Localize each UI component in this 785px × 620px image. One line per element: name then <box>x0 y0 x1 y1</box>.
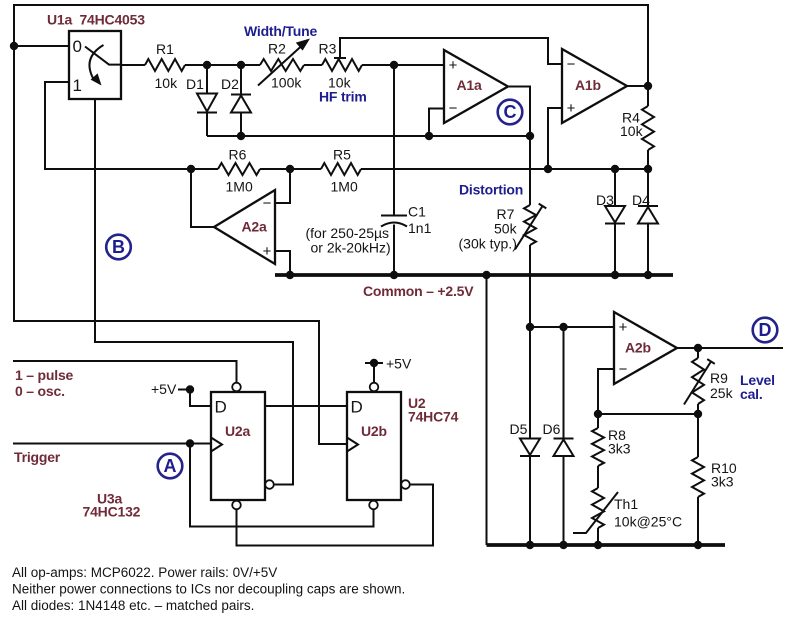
U2b notQ pin circle <box>401 480 410 489</box>
diode D5 <box>529 327 531 439</box>
svg-text:1: 1 <box>73 76 82 95</box>
svg-text:D1: D1 <box>186 76 204 92</box>
wire: pulse/osc select to U2a set pin <box>13 361 237 383</box>
svg-text:−: − <box>619 361 628 378</box>
wire: R9 bottom to R8/R10 node <box>598 413 698 415</box>
junction D1 top <box>203 61 211 69</box>
wire: R3 to A1a non-inverting input <box>362 64 444 66</box>
U2a clock wedge <box>211 438 222 452</box>
op-amp A1b <box>562 49 627 123</box>
junction R10 bottom <box>694 541 702 549</box>
svg-text:(30k typ.): (30k typ.) <box>459 236 517 252</box>
wire: D1/D2 cathode bus to A1a output node <box>207 135 530 137</box>
svg-text:−: − <box>449 100 458 117</box>
diode D1 <box>206 65 208 94</box>
wire: A2a output feedback <box>191 169 214 227</box>
svg-text:A: A <box>164 456 177 476</box>
wire: R2 to R3 <box>304 64 322 66</box>
junction A2a output feedback <box>187 165 195 173</box>
U2a clear pin circle <box>232 501 241 510</box>
junction D2 top <box>237 61 245 69</box>
junction A2b output / R9 top <box>694 344 702 352</box>
potentiometer R2 Width/Tune <box>260 59 304 71</box>
svg-text:0: 0 <box>73 37 82 56</box>
svg-text:U2b: U2b <box>361 423 387 439</box>
svg-text:D: D <box>351 398 363 417</box>
svg-text:+: + <box>263 243 272 260</box>
svg-text:+: + <box>449 57 458 74</box>
svg-text:Common – +2.5V: Common – +2.5V <box>363 283 474 299</box>
junction D4 bottom on rail <box>644 271 652 279</box>
svg-text:−: − <box>567 56 576 73</box>
svg-text:R2: R2 <box>268 41 286 57</box>
bottom rail 0V <box>487 543 726 547</box>
wire: R6 to R5 <box>260 168 321 170</box>
junction A1a inverting feedback <box>425 132 433 140</box>
svg-text:All op-amps: MCP6022. Power ra: All op-amps: MCP6022. Power rails: 0V/+5… <box>12 565 277 580</box>
svg-text:or 2k-20kHz): or 2k-20kHz) <box>311 240 391 256</box>
wire: U2a Q to U2b D <box>265 405 347 407</box>
svg-text:D4: D4 <box>632 192 650 208</box>
svg-text:A1b: A1b <box>575 77 601 93</box>
wire: A1a output down to diode bus and R7 <box>508 87 530 206</box>
node B <box>106 235 131 260</box>
junction A1a output at bus <box>526 132 534 140</box>
node C <box>498 100 523 125</box>
junction lower-section feed on rail <box>482 271 490 279</box>
wire: R3 wiper to A1b inverting input <box>340 38 562 64</box>
resistor R1 <box>145 59 185 71</box>
capacitor C1 <box>393 65 395 216</box>
svg-text:C1: C1 <box>408 204 426 220</box>
diode D4 <box>647 169 649 206</box>
svg-text:10k: 10k <box>155 75 179 91</box>
svg-text:100k: 100k <box>271 75 302 91</box>
junction A1b + riser <box>544 165 552 173</box>
wire: rail down to bottom rail (left side of output section) <box>486 275 488 545</box>
wire: A2b inverting input riser <box>598 369 614 414</box>
wire: A2a non-inverting stub to common <box>275 251 290 275</box>
resistor R5 <box>321 163 361 175</box>
U2b clock wedge <box>347 438 358 452</box>
svg-text:3k3: 3k3 <box>608 441 631 457</box>
svg-text:Th1: Th1 <box>614 496 638 512</box>
svg-text:A2a: A2a <box>242 219 267 235</box>
wire: A1b output <box>627 85 648 87</box>
wire: A2b output to node D <box>677 347 783 349</box>
svg-text:All diodes: 1N4148 etc. – matc: All diodes: 1N4148 etc. – matched pairs. <box>12 598 254 613</box>
svg-text:50k: 50k <box>494 221 518 237</box>
svg-text:U2a: U2a <box>225 423 250 439</box>
svg-text:Distortion: Distortion <box>459 182 523 198</box>
svg-text:D3: D3 <box>596 192 614 208</box>
svg-text:A2b: A2b <box>625 340 651 356</box>
junction R4 bottom D4 top <box>644 165 652 173</box>
svg-text:−: − <box>263 195 272 212</box>
wire: A1b output down to R4 <box>647 86 649 106</box>
junction R9 bottom R10 top <box>694 410 702 418</box>
svg-text:R5: R5 <box>333 147 351 163</box>
svg-text:1M0: 1M0 <box>331 179 358 195</box>
wire: R5 to R4 bottom node <box>361 168 648 170</box>
resistor R4 <box>642 106 654 150</box>
svg-text:D6: D6 <box>543 421 561 437</box>
svg-text:B: B <box>112 237 125 257</box>
wire: U1a control pin down to U2a Q riser <box>95 99 293 485</box>
wire: trigger branch to U2b clear pin <box>190 444 374 527</box>
resistor R10 <box>697 414 699 457</box>
svg-text:10k: 10k <box>620 123 644 139</box>
analog switch U1a box <box>69 31 121 99</box>
svg-text:+5V: +5V <box>151 381 177 397</box>
junction D3 top <box>611 165 619 173</box>
junction R8 top <box>594 410 602 418</box>
U2b set pin circle <box>370 383 379 392</box>
svg-text:D2: D2 <box>221 76 239 92</box>
U2a set pin circle <box>232 383 241 392</box>
svg-text:74HC132: 74HC132 <box>83 504 141 520</box>
svg-text:R1: R1 <box>156 41 174 57</box>
svg-text:R3: R3 <box>319 41 337 57</box>
svg-text:A1a: A1a <box>457 77 482 93</box>
junction D3 bottom on rail <box>611 271 619 279</box>
svg-text:+5V: +5V <box>386 356 412 372</box>
svg-text:1M0: 1M0 <box>226 179 253 195</box>
wire: A1b non-inverting input riser <box>548 108 562 169</box>
op-amp A2a (points left) <box>214 190 275 264</box>
svg-text:R9: R9 <box>710 370 728 386</box>
wire: U1a pin 1 to R6 input line <box>45 82 218 169</box>
junction D5 bottom <box>526 541 534 549</box>
node A <box>158 454 183 479</box>
junction C1 bottom on rail <box>390 271 398 279</box>
svg-text:0 – osc.: 0 – osc. <box>15 383 65 399</box>
wire: Trigger to U2a clock <box>13 443 211 445</box>
svg-text:HF trim: HF trim <box>319 89 367 105</box>
wire: U2a clear to U2b notQ loop <box>237 485 434 546</box>
junction A1b output <box>644 82 652 90</box>
flip-flop U2b <box>347 392 401 500</box>
wire: U1a output to R1 <box>121 64 145 66</box>
junction at U1a pin 0 branch <box>10 42 18 50</box>
svg-text:Trigger: Trigger <box>14 449 61 465</box>
svg-text:+: + <box>567 100 576 117</box>
wire: R7/D5 node to A2b non-inverting input <box>530 326 614 328</box>
junction A2a inverting input <box>286 165 294 173</box>
junction D6 top <box>559 323 567 331</box>
svg-text:10k@25°C: 10k@25°C <box>614 514 682 530</box>
U1a switch arm <box>85 47 121 65</box>
node D <box>753 318 778 343</box>
op-amp A2b <box>614 312 677 384</box>
svg-text:D: D <box>759 320 772 340</box>
junction trigger branch <box>186 439 194 447</box>
svg-text:C: C <box>504 102 517 122</box>
diode D3 <box>614 169 616 206</box>
svg-text:Width/Tune: Width/Tune <box>244 23 317 39</box>
svg-text:Neither power connections to I: Neither power connections to ICs nor dec… <box>12 582 405 597</box>
resistor R8 <box>597 414 599 428</box>
svg-text:D5: D5 <box>510 421 528 437</box>
wire: integrator line R6 R5 <box>218 163 260 175</box>
svg-text:1 – pulse: 1 – pulse <box>15 367 74 383</box>
junction D6 bottom <box>559 541 567 549</box>
svg-text:U1a 74HC4053: U1a 74HC4053 <box>47 12 145 28</box>
svg-text:+: + <box>619 319 628 336</box>
wire: A1a inverting input riser <box>429 109 444 137</box>
svg-text:25k: 25k <box>710 385 734 401</box>
junction Th1 bottom <box>594 541 602 549</box>
U2b clear pin circle <box>369 501 378 510</box>
wire: node B feedback from U1a pin-0 node down-left to U2b clock <box>14 46 347 444</box>
wire: +5V to U2a D input <box>190 390 211 407</box>
diode D2 <box>240 65 242 95</box>
svg-text:3k3: 3k3 <box>711 474 734 490</box>
svg-text:1n1: 1n1 <box>408 220 432 236</box>
diode D6 <box>563 327 565 439</box>
svg-text:R6: R6 <box>229 147 247 163</box>
svg-text:cal.: cal. <box>740 386 763 402</box>
power +5V tap for U2b set <box>373 363 375 383</box>
op-amp A1a <box>444 50 508 123</box>
flip-flop U2a <box>211 392 265 500</box>
U2a notQ pin circle <box>265 480 274 489</box>
trimmer R9 Level cal. <box>697 348 699 358</box>
junction R7-D5 <box>526 323 534 331</box>
junction A2a + on rail <box>286 271 294 279</box>
junction D2 bottom <box>237 132 245 140</box>
svg-text:74HC74: 74HC74 <box>408 409 459 425</box>
thermistor Th1 <box>592 488 604 528</box>
wire: into U1a pin 0 <box>14 45 69 47</box>
trimmer R3 HF trim <box>322 59 362 71</box>
common rail +2.5V <box>275 273 673 277</box>
wire: A2a inverting stub <box>275 169 290 203</box>
wire: R1 to R2 with D1 D2 taps <box>185 64 260 66</box>
trimmer R7 Distortion <box>524 205 536 245</box>
junction C1 top branch <box>390 61 398 69</box>
svg-text:D: D <box>215 398 227 417</box>
wire: top feedback rail from A1b output to top-left <box>14 5 648 86</box>
U1a switch motion arrow <box>89 45 103 80</box>
